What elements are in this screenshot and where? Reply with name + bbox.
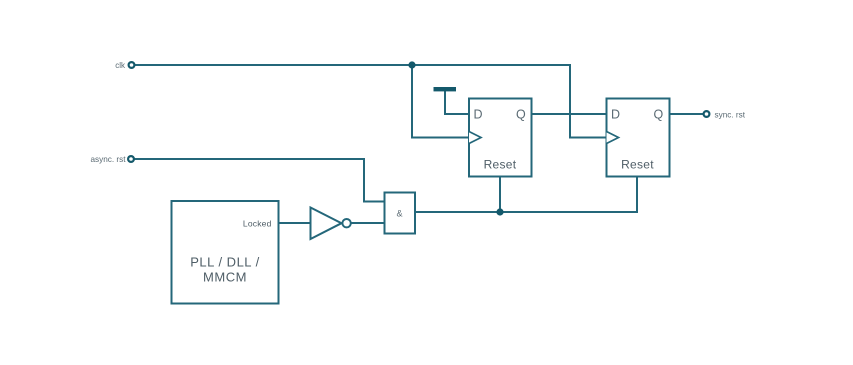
PLL block box [172, 201, 279, 304]
svg-text:Locked: Locked [243, 219, 272, 229]
wire Q1 to D2 [532, 113, 607, 115]
svg-text:clk: clk [115, 61, 126, 70]
wire inverter out to AND input B [351, 222, 385, 224]
wire async.rst to AND input A [134, 159, 385, 202]
svg-text:Reset: Reset [621, 158, 654, 172]
wire tie-high stem to D1 [445, 91, 469, 114]
inverter bubble [342, 219, 350, 227]
flip-flop U2 clock triangle [607, 132, 619, 144]
pin clk [129, 62, 135, 68]
pin sync. rst [704, 111, 710, 117]
node clk junction [408, 61, 415, 68]
svg-text:PLL / DLL /: PLL / DLL / [190, 255, 260, 270]
svg-text:&: & [396, 209, 402, 219]
svg-text:Q: Q [654, 108, 664, 122]
tie-high bar (logic 1) [434, 87, 457, 91]
svg-text:async. rst: async. rst [90, 155, 126, 164]
wire reset stem DFF1 [499, 177, 501, 213]
node reset junction [496, 208, 503, 215]
pin async. rst [128, 156, 134, 162]
svg-text:Reset: Reset [484, 158, 517, 172]
wire Locked to inverter [279, 222, 311, 224]
wire clk horizontal + down to DFF2 clock [135, 65, 607, 138]
AND gate box [385, 193, 416, 234]
flip-flop U2 box [607, 99, 670, 177]
svg-text:sync. rst: sync. rst [715, 111, 746, 120]
wire clk branch to DFF1 clock [412, 65, 469, 138]
wire Q2 to sync.rst pin [670, 113, 704, 115]
inverter triangle [311, 208, 342, 240]
wire AND output to reset pins [415, 177, 637, 213]
svg-text:MMCM: MMCM [203, 270, 247, 285]
flip-flop U1 box [469, 99, 532, 177]
flip-flop U1 clock triangle [469, 132, 481, 144]
svg-text:Q: Q [516, 108, 526, 122]
svg-text:D: D [611, 108, 620, 122]
svg-text:D: D [474, 108, 483, 122]
